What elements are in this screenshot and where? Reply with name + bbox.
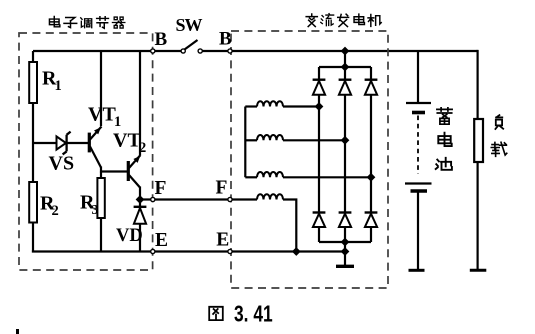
zener diode VS bbox=[57, 132, 71, 155]
title right box char 电 bbox=[354, 14, 364, 24]
title right box char 发 bbox=[338, 14, 349, 26]
svg-text:VS: VS bbox=[49, 153, 75, 175]
svg-text:F: F bbox=[216, 178, 228, 199]
wire VT2 emitter to F node bbox=[139, 187, 141, 200]
title left box char 节 bbox=[97, 17, 109, 28]
diode VD bbox=[134, 207, 147, 224]
wire VT1 collector to rail bbox=[100, 51, 102, 126]
wire D1 to D4 column bbox=[318, 95, 320, 213]
ground bar bbox=[336, 265, 354, 268]
stator winding W1 bbox=[245, 101, 319, 106]
terminal circle E right bbox=[228, 249, 232, 253]
battery ground bar bbox=[409, 269, 425, 272]
svg-text:SW: SW bbox=[176, 15, 203, 35]
wire bottom bus to E rail bbox=[344, 242, 346, 253]
terminal circle E left bbox=[151, 249, 155, 253]
diode D2 top bbox=[339, 67, 352, 95]
node bridge feed on rail bbox=[341, 47, 350, 56]
node E rail bridge junction bbox=[341, 247, 350, 256]
node top bus center bbox=[341, 63, 350, 72]
wire D5 to bottom bus bbox=[344, 227, 346, 242]
wire VD anode to E rail bbox=[139, 224, 141, 253]
battery label char 蓄 bbox=[437, 108, 452, 124]
title right box char 流 bbox=[321, 14, 334, 26]
svg-text:2: 2 bbox=[52, 203, 59, 219]
transistor VT2 bbox=[128, 155, 140, 188]
svg-text:E: E bbox=[216, 230, 229, 251]
title left box char 子 bbox=[64, 18, 77, 28]
field winding rotor coil bbox=[257, 194, 296, 251]
load label char 负 bbox=[495, 115, 503, 129]
wire VT2 collector to rail bbox=[139, 51, 141, 155]
title left box char 调 bbox=[81, 18, 92, 28]
terminal circle B left bbox=[151, 49, 155, 53]
node bottom bus center bbox=[341, 238, 350, 247]
wire R3 bottom lead bbox=[100, 218, 102, 253]
wire E rail to ground bbox=[344, 252, 346, 266]
wire top rail B+ bbox=[33, 50, 183, 52]
wire D2 to D5 column bbox=[344, 95, 346, 213]
svg-text:2: 2 bbox=[139, 140, 146, 156]
page artifact tick bbox=[16, 329, 19, 334]
svg-text:E: E bbox=[155, 230, 168, 251]
battery label char 池 bbox=[436, 158, 452, 170]
svg-text:1: 1 bbox=[55, 78, 62, 94]
alternator dashed box 交流发电机 bbox=[231, 31, 388, 288]
battery 蓄电池 bbox=[405, 103, 432, 191]
wire stator neutral bbox=[244, 107, 246, 178]
wire D4 to bottom bus bbox=[318, 227, 320, 242]
terminal circle F right bbox=[228, 197, 232, 201]
title right box char 交 bbox=[306, 14, 317, 27]
resistor R3 bbox=[97, 178, 104, 218]
terminal circle B right bbox=[228, 49, 232, 53]
wire F line to field winding bbox=[140, 198, 257, 200]
wire rail to bridge top bus bbox=[344, 51, 346, 67]
svg-text:VT: VT bbox=[88, 104, 116, 126]
wire R3 top lead bbox=[100, 172, 102, 179]
svg-text:VT: VT bbox=[113, 129, 141, 151]
svg-text:F: F bbox=[155, 178, 167, 199]
title right box char 机 bbox=[368, 14, 381, 26]
wire battery bottom lead bbox=[417, 193, 419, 270]
transistor VT1 bbox=[89, 127, 101, 168]
node W1 to D1 column bbox=[315, 102, 324, 111]
wire R1 bottom to divider tap bbox=[32, 103, 34, 182]
caption char 图 bbox=[209, 307, 223, 320]
regulator dashed box 电子调节器 bbox=[19, 33, 153, 270]
terminal circle SW right bbox=[198, 49, 202, 53]
wire R2 bottom lead bbox=[32, 223, 34, 253]
svg-text:1: 1 bbox=[114, 114, 121, 130]
terminal circle F left bbox=[151, 197, 155, 201]
svg-text:VD: VD bbox=[116, 226, 143, 246]
svg-text:3: 3 bbox=[92, 203, 99, 218]
WIRES bbox=[33, 50, 478, 52]
node W3 to D3 column bbox=[367, 173, 376, 182]
diode D1 top bbox=[313, 67, 326, 95]
node F junction bbox=[136, 195, 145, 204]
wire load bottom lead bbox=[477, 162, 479, 269]
resistor load 负载 bbox=[474, 119, 483, 162]
load ground bar bbox=[470, 269, 487, 272]
node W2 to D2 column bbox=[341, 136, 350, 145]
resistor R1 bbox=[29, 62, 37, 103]
wire bottom E rail bbox=[32, 250, 345, 252]
diode D5 bottom bbox=[339, 213, 352, 228]
terminal circle SW left bbox=[181, 49, 185, 53]
stator winding W3 bbox=[245, 172, 371, 177]
svg-text:3. 41: 3. 41 bbox=[234, 301, 273, 327]
svg-text:B: B bbox=[219, 29, 232, 50]
svg-text:B: B bbox=[155, 29, 168, 50]
wire bridge top bus bbox=[319, 66, 371, 68]
resistor R2 bbox=[29, 182, 37, 223]
wire divider tap to VS anode bbox=[33, 142, 57, 144]
load label char 载 bbox=[491, 142, 506, 156]
wire switch to load corner bbox=[201, 50, 478, 52]
diode D3 top bbox=[365, 67, 378, 95]
node field to E rail bbox=[292, 247, 301, 256]
wire battery top lead bbox=[417, 51, 419, 102]
title left box char 电 bbox=[49, 16, 59, 26]
wire VS cathode to VT1 base bbox=[67, 142, 88, 144]
wire load top lead bbox=[477, 51, 478, 119]
wire R1 top lead bbox=[32, 51, 34, 62]
stator winding W2 bbox=[245, 135, 345, 140]
wire bridge bottom bus bbox=[319, 241, 371, 243]
wire D6 to bottom bus bbox=[370, 227, 372, 242]
battery label char 电 bbox=[438, 133, 451, 146]
wire VT1 emitter node to VT2 base bbox=[101, 167, 128, 172]
diode D6 bottom bbox=[365, 213, 378, 228]
title left box char 器 bbox=[112, 17, 124, 28]
wire D3 to D6 column bbox=[370, 95, 372, 213]
wire VD top lead bbox=[139, 200, 141, 207]
diode D4 bottom bbox=[313, 213, 326, 228]
switch SW blade bbox=[185, 40, 198, 50]
